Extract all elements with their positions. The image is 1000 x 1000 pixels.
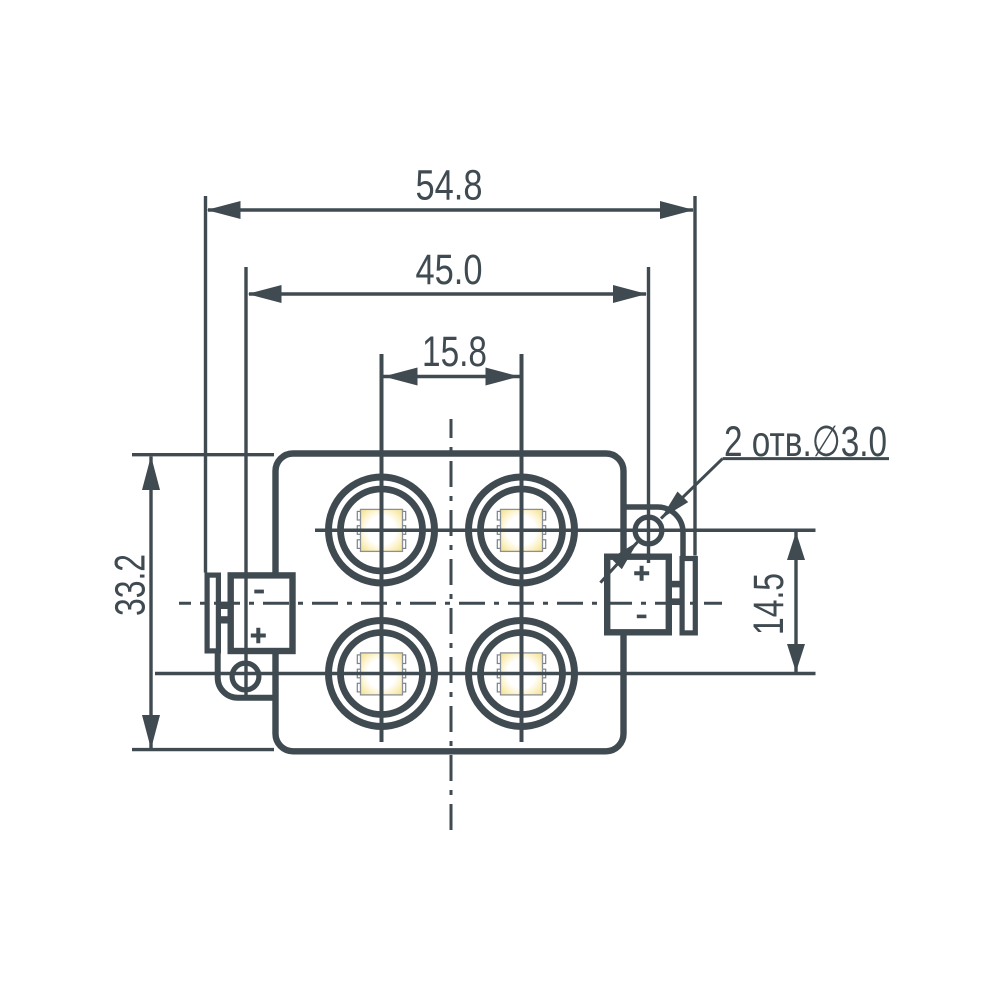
LED package top-right: [497, 509, 545, 551]
ext 45.0 right: [647, 267, 650, 563]
top LED row line: [315, 529, 816, 533]
ext 54.8 right: [693, 196, 696, 556]
dim 54.8: [207, 162, 695, 220]
ext 33.2 bottom: [132, 748, 274, 751]
LED ring outer top-left: [329, 477, 435, 583]
left box minus label: [254, 590, 264, 594]
svg-text:14.5: 14.5: [745, 573, 793, 635]
ext 15.8 right / LED column right: [520, 354, 524, 742]
vertical centerline: [450, 419, 453, 832]
solid center rows: [155, 530, 816, 673]
mounting hole top-right: [635, 517, 662, 544]
mounting tab top-right: [626, 507, 683, 557]
leader arrow lower: [611, 542, 638, 570]
LED package bottom-right: [497, 653, 545, 695]
LED ring inner bottom-right: [481, 633, 563, 715]
ext 33.2 top: [132, 453, 274, 456]
LED ring outer bottom-left: [329, 621, 435, 727]
dim 14.5: [745, 532, 805, 672]
ext 54.8 left: [204, 196, 207, 573]
LED package top-left: [357, 509, 405, 551]
LED ring outer top-right: [469, 477, 575, 583]
bottom LED row line: [155, 672, 816, 676]
leader 2 holes dia 3.0: [600, 418, 889, 583]
svg-text:2 отв.∅3.0: 2 отв.∅3.0: [724, 418, 887, 466]
leader line upper: [661, 459, 723, 519]
right box plus label: [634, 566, 649, 581]
LED package bottom-left: [357, 653, 405, 695]
left bracket: [207, 575, 218, 651]
LED packages: [357, 509, 545, 695]
extension lines: [206, 196, 696, 696]
left box plus label: [251, 628, 266, 643]
svg-text:33.2: 33.2: [107, 554, 155, 616]
dim 45.0: [248, 246, 648, 303]
ext 15.8 left / LED column left: [380, 354, 384, 742]
right box minus label: [637, 615, 647, 619]
dim 33.2: [107, 456, 161, 749]
mounting hole bottom-left: [232, 663, 259, 690]
right connector bars: [670, 581, 682, 588]
svg-text:15.8: 15.8: [422, 328, 487, 376]
module body: [276, 454, 624, 752]
dim 15.8: [384, 328, 520, 386]
right connector box: [607, 557, 669, 633]
leader arrow at hole upper: [661, 492, 688, 519]
LED rings: [329, 477, 575, 727]
LED ring inner top-right: [481, 489, 563, 571]
right bracket: [682, 559, 695, 633]
ext 45.0 left: [244, 267, 247, 696]
LED ring inner top-left: [341, 489, 423, 571]
dash-dot centerlines: [179, 419, 722, 832]
svg-text:54.8: 54.8: [416, 162, 483, 210]
horizontal centerline: [179, 602, 722, 605]
leader underline: [723, 457, 889, 460]
LED ring inner bottom-left: [341, 633, 423, 715]
left connector bars: [219, 602, 230, 609]
left connector box: [231, 575, 293, 651]
mounting tab bottom-left: [218, 650, 276, 698]
LED ring outer bottom-right: [469, 621, 575, 727]
svg-text:45.0: 45.0: [416, 246, 483, 294]
leader line lower: [600, 542, 637, 583]
